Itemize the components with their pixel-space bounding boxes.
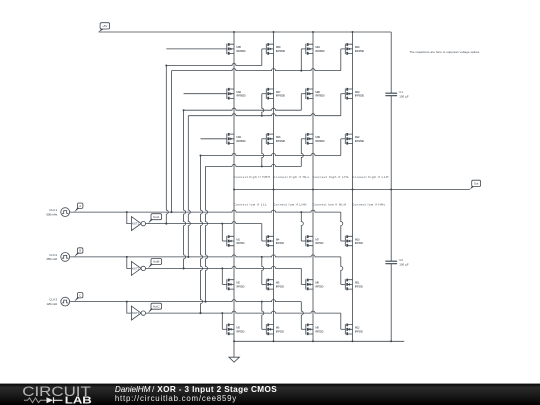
svg-text:Connect low if HHL: Connect low if HHL <box>352 203 386 207</box>
wire A vertical riser (bundle) <box>171 71 173 214</box>
wire M3 gate drop from NotC <box>222 313 227 329</box>
svg-text:IRF9530: IRF9530 <box>355 49 365 53</box>
capacitor C2 100 uF <box>385 258 408 267</box>
node B flag <box>74 248 83 257</box>
svg-text:125 mHz: 125 mHz <box>46 302 57 306</box>
wire +5V top rail <box>99 31 392 33</box>
svg-text:IRF9530: IRF9530 <box>276 49 286 53</box>
svg-text:DanielHM: DanielHM <box>115 385 151 394</box>
svg-text:Connect high if LLH: Connect high if LLH <box>352 175 389 179</box>
svg-text:C2: C2 <box>399 258 403 262</box>
voltage source CLK2 250 mHz <box>46 253 69 262</box>
svg-text:Connect high if LHL: Connect high if LHL <box>312 175 349 179</box>
svg-text:IRF9530: IRF9530 <box>276 94 286 98</box>
node label: Connect low conditions <box>233 203 385 207</box>
svg-text:NotA: NotA <box>153 215 159 219</box>
wire M6 gate drop from C <box>262 302 267 330</box>
svg-text:C1: C1 <box>399 90 403 94</box>
transistor M19 (PMOS IRF9530, row 3 col 3) <box>306 133 325 145</box>
svg-text:IRF530: IRF530 <box>315 241 323 245</box>
capacitor C1 100 uF <box>385 90 408 99</box>
svg-text:The capacitors are here to sup: The capacitors are here to suppress volt… <box>409 50 480 54</box>
op-amp NOT2 inverter <box>127 257 146 276</box>
wire gate bus row2 B (cols 2,4) <box>188 94 345 117</box>
wire net NotB <box>146 266 302 269</box>
transistor M16 (PMOS IRF9530, row 3 col 2) <box>266 133 285 145</box>
transistor M15 (PMOS IRF9530, row 1 col 1) <box>227 43 246 55</box>
svg-text:IRF530: IRF530 <box>355 329 363 333</box>
svg-text:NOT2: NOT2 <box>132 267 140 271</box>
wire PMOS stack column 4 (VDD to output node) <box>352 32 354 190</box>
wire PMOS stack column 3 (VDD to output node) <box>312 32 314 190</box>
wire net B <box>70 255 341 258</box>
svg-text:Out: Out <box>474 181 479 185</box>
wire ground rail <box>233 340 404 342</box>
wire gate bus row3 C (cols 2,3) <box>206 139 306 168</box>
wire net C <box>70 300 302 303</box>
wire NotA vertical riser (bundle) <box>165 66 168 225</box>
svg-text:250 mHz: 250 mHz <box>46 257 57 261</box>
voltage source CLK3 125 mHz <box>46 297 69 306</box>
svg-text:C: C <box>79 293 81 297</box>
transistor M8 (NMOS IRF530, row 5 col 3) <box>306 279 324 291</box>
wire M15 gate lead to NotA bundle <box>166 48 227 50</box>
svg-text:IRF530: IRF530 <box>355 284 363 288</box>
node C flag <box>74 293 83 302</box>
voltage source CLK1 500 mHz <box>46 208 69 217</box>
wire M14 gate lead to NotB bundle <box>184 93 227 95</box>
transistor M5 (NMOS IRF530, row 5 col 2) <box>266 279 284 291</box>
transistor M18 (PMOS IRF9530, row 1 col 2) <box>266 43 285 55</box>
svg-text:IRF530: IRF530 <box>315 284 323 288</box>
svg-text:XOR - 3 Input 2 Stage CMOS: XOR - 3 Input 2 Stage CMOS <box>157 385 277 394</box>
wire gate bus row3 NotC (cols 1,4) <box>200 139 346 157</box>
svg-text:NotB: NotB <box>153 260 159 264</box>
wire M12 gate drop from NotC <box>341 313 346 329</box>
transistor M3 (NMOS IRF530, row 6 col 1) <box>227 324 245 336</box>
svg-text:NotC: NotC <box>153 304 159 308</box>
transistor M1 (NMOS IRF530, row 4 col 1) <box>227 235 245 247</box>
svg-text:IRF9530: IRF9530 <box>236 139 246 143</box>
svg-text:IRF530: IRF530 <box>355 241 363 245</box>
transistor M24 (PMOS IRF9530, row 1 col 4) <box>345 43 364 55</box>
svg-text:http://circuitlab.com/cee859y: http://circuitlab.com/cee859y <box>115 394 236 403</box>
wire M9 gate drop from C <box>301 302 306 330</box>
wire net NotC <box>146 311 341 314</box>
transistor M13 (PMOS IRF9530, row 3 col 1) <box>227 133 246 145</box>
wire net NotA <box>146 222 262 225</box>
wire M2 gate drop from NotB <box>222 268 227 284</box>
wire PMOS stack column 2 (VDD to output node) <box>273 32 275 190</box>
wire M8 gate drop from NotB <box>301 268 306 284</box>
wire gate bus row2 NotB (cols 1,3) <box>183 94 306 112</box>
svg-text:Connect low if LHH: Connect low if LHH <box>273 203 307 207</box>
node NotC flag <box>148 303 162 313</box>
node NotB flag <box>148 259 162 269</box>
svg-text:IRF530: IRF530 <box>236 284 244 288</box>
wire NMOS stack column 1 (output node to GND) <box>233 190 235 342</box>
wire M13 gate lead to NotC bundle <box>201 138 227 140</box>
wire B vertical riser (bundle) <box>187 116 190 258</box>
transistor M9 (NMOS IRF530, row 6 col 3) <box>306 324 324 336</box>
wire M11 gate drop from B <box>341 257 346 285</box>
svg-text:IRF9530: IRF9530 <box>315 94 325 98</box>
svg-text:NOT1: NOT1 <box>132 222 140 226</box>
node NotA flag <box>148 214 162 224</box>
svg-text:NOT3: NOT3 <box>132 311 140 315</box>
wire NotC vertical riser (bundle) <box>200 156 203 315</box>
svg-text:IRF9530: IRF9530 <box>355 94 365 98</box>
op-amp NOT3 inverter <box>127 302 146 321</box>
transistor M7 (NMOS IRF530, row 4 col 3) <box>306 235 324 247</box>
wire M7 gate drop from A <box>301 212 306 241</box>
svg-text:100 µF: 100 µF <box>399 262 409 266</box>
wire NMOS stack column 3 (output node to GND) <box>312 190 314 342</box>
transistor M14 (PMOS IRF9530, row 2 col 1) <box>227 88 246 100</box>
wire output node <box>233 189 470 191</box>
op-amp NOT1 inverter <box>127 212 146 231</box>
svg-text:IRF530: IRF530 <box>315 329 323 333</box>
annotation about capacitors <box>409 50 480 54</box>
svg-text:100 µF: 100 µF <box>399 94 409 98</box>
wire C vertical riser (bundle) <box>205 166 208 302</box>
transistor M6 (NMOS IRF530, row 6 col 2) <box>266 324 284 336</box>
svg-text:IRF530: IRF530 <box>236 241 244 245</box>
svg-text:Connect low if LLL: Connect low if LLL <box>233 203 267 207</box>
wire M10 gate drop from A <box>341 212 346 241</box>
svg-text:IRF9530: IRF9530 <box>236 49 246 53</box>
svg-text:IRF530: IRF530 <box>236 329 244 333</box>
svg-text:IRF9530: IRF9530 <box>236 94 246 98</box>
svg-text:500 mHz: 500 mHz <box>46 212 57 216</box>
wire M5 gate drop from B <box>262 257 267 285</box>
svg-text:B: B <box>79 249 81 253</box>
wire NMOS stack column 4 (output node to GND) <box>352 190 354 342</box>
wire NotB vertical riser (bundle) <box>183 110 186 269</box>
svg-text:IRF9530: IRF9530 <box>355 139 365 143</box>
transistor M2 (NMOS IRF530, row 5 col 1) <box>227 279 245 291</box>
transistor M22 (PMOS IRF9530, row 3 col 4) <box>345 133 364 145</box>
svg-text:Connect high if HHH: Connect high if HHH <box>233 175 270 179</box>
wire capacitor branch vertical <box>390 32 392 341</box>
transistor M10 (NMOS IRF530, row 4 col 4) <box>345 235 363 247</box>
ground symbol <box>229 341 240 362</box>
footer title text <box>115 385 277 403</box>
transistor M12 (NMOS IRF530, row 6 col 4) <box>345 324 363 336</box>
node A flag <box>74 203 83 212</box>
svg-text:IRF530: IRF530 <box>276 241 284 245</box>
transistor M11 (NMOS IRF530, row 5 col 4) <box>345 279 363 291</box>
svg-text:IRF530: IRF530 <box>276 284 284 288</box>
wire M1 gate drop from NotA <box>222 224 227 241</box>
wire M4 gate drop from NotA <box>262 224 267 241</box>
transistor M17 (PMOS IRF9530, row 2 col 2) <box>266 88 285 100</box>
+5V supply flag <box>99 23 110 32</box>
svg-text:IRF530: IRF530 <box>276 329 284 333</box>
svg-text:Connect high if HLL: Connect high if HLL <box>273 175 310 179</box>
wire net A <box>70 210 341 213</box>
node label: Connect high conditions <box>233 175 388 179</box>
transistor M21 (PMOS IRF9530, row 1 col 3) <box>306 43 325 55</box>
svg-text:IRF9530: IRF9530 <box>315 49 325 53</box>
transistor M20 (PMOS IRF9530, row 2 col 3) <box>306 88 325 100</box>
wire PMOS stack column 1 (VDD to output node) <box>233 32 235 190</box>
wire gate bus row1 A (cols 3-4) <box>172 49 346 72</box>
svg-text:LAB: LAB <box>65 396 92 405</box>
node Out flag <box>470 180 481 189</box>
svg-text:IRF9530: IRF9530 <box>315 139 325 143</box>
transistor M23 (PMOS IRF9530, row 2 col 4) <box>345 88 364 100</box>
wire NMOS stack column 2 (output node to GND) <box>273 190 275 342</box>
svg-text:A: A <box>79 204 81 208</box>
wire gate bus row1 NotA (cols 1-2) <box>165 49 266 67</box>
CircuitLab logo <box>22 384 92 405</box>
svg-text:Connect low if HLH: Connect low if HLH <box>312 203 346 207</box>
svg-text:+5V: +5V <box>102 24 107 28</box>
transistor M4 (NMOS IRF530, row 4 col 2) <box>266 235 284 247</box>
svg-text:IRF9530: IRF9530 <box>276 139 286 143</box>
